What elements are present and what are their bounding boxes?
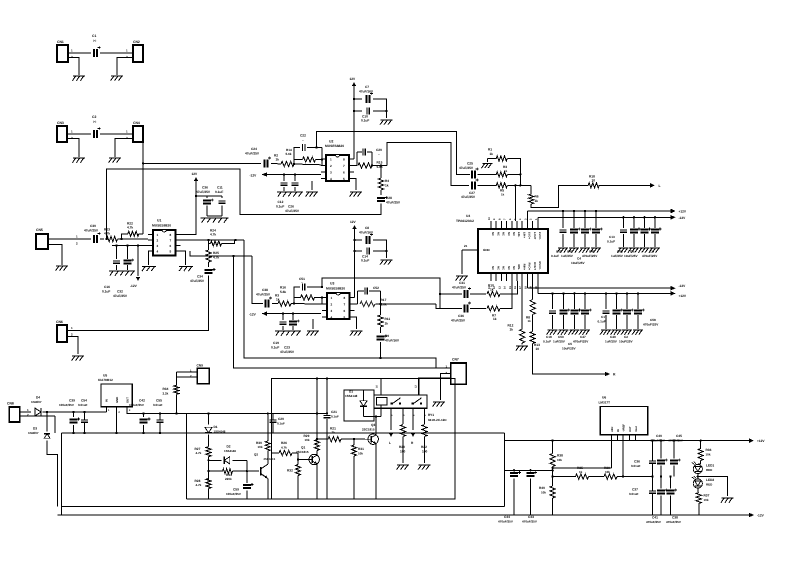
svg-text:CN2: CN2 <box>133 40 140 44</box>
wire <box>207 206 222 217</box>
wire <box>181 239 245 241</box>
power -12V out <box>671 215 687 220</box>
wire rail bottom 2 <box>57 514 750 516</box>
svg-text:CN5: CN5 <box>36 228 43 232</box>
wire <box>208 435 210 447</box>
svg-text:0.1uF: 0.1uF <box>331 415 339 419</box>
wire <box>196 196 222 198</box>
svg-text:C24: C24 <box>251 147 257 151</box>
svg-text:R34: R34 <box>163 387 169 391</box>
svg-text:1: 1 <box>157 233 159 237</box>
capacitor C20b <box>270 417 286 426</box>
resistor R6 <box>529 194 539 204</box>
wire <box>461 250 463 274</box>
wire CN4 to C24 <box>143 134 261 163</box>
svg-text:10k: 10k <box>704 498 709 502</box>
wire <box>373 99 387 118</box>
wire <box>314 296 323 304</box>
resistor R25 <box>206 250 219 262</box>
resistor R23 <box>104 228 117 242</box>
svg-text:1k: 1k <box>385 322 389 326</box>
wire <box>553 476 576 478</box>
label <box>598 320 606 324</box>
wire <box>673 439 675 476</box>
svg-text:-12V: -12V <box>249 313 257 317</box>
svg-text:470uF/25V: 470uF/25V <box>650 439 665 443</box>
svg-text:0.1uF: 0.1uF <box>598 320 606 324</box>
svg-text:U2: U2 <box>329 140 333 144</box>
label <box>546 335 552 339</box>
wire rail -12V b <box>527 281 670 288</box>
svg-text:470uF/25V: 470uF/25V <box>522 519 537 523</box>
capacitor C22 <box>300 134 306 152</box>
svg-text:10: 10 <box>536 347 540 351</box>
svg-text:47uF/25V: 47uF/25V <box>84 229 99 233</box>
wire <box>207 457 209 480</box>
wire <box>294 187 296 191</box>
wire <box>419 378 451 395</box>
capacitor C8 <box>359 226 374 244</box>
svg-text:1k: 1k <box>276 158 280 162</box>
svg-text:10uF/25V: 10uF/25V <box>619 340 634 344</box>
svg-text:4: 4 <box>330 177 332 181</box>
resistor R22 <box>127 222 139 237</box>
svg-text:2: 2 <box>330 164 332 168</box>
svg-text:0.1uF: 0.1uF <box>543 340 551 344</box>
svg-text:NC: NC <box>496 266 499 270</box>
label <box>610 335 616 339</box>
resistor R12 <box>508 324 525 344</box>
label <box>556 250 562 254</box>
diode D4 <box>31 396 42 416</box>
capacitor C14 <box>361 248 369 263</box>
pins U2 <box>321 157 354 181</box>
label <box>650 250 654 254</box>
wire rail bottom 1 <box>62 505 505 507</box>
power +12V <box>350 77 357 86</box>
resistor R24 <box>210 229 222 247</box>
wire <box>363 390 365 417</box>
ground <box>638 248 649 253</box>
wire <box>698 477 728 497</box>
svg-text:C37: C37 <box>632 488 638 492</box>
wire <box>440 293 462 295</box>
wire <box>61 433 63 515</box>
capacitor C18 <box>549 311 556 313</box>
wire <box>126 244 128 259</box>
svg-text:10k: 10k <box>258 445 263 449</box>
wire <box>272 303 278 305</box>
svg-text:47uF/25V: 47uF/25V <box>190 279 205 283</box>
wire <box>117 58 133 76</box>
wire <box>589 476 605 478</box>
svg-text:47uF/16V: 47uF/16V <box>385 339 400 343</box>
wire GND bus <box>62 432 505 434</box>
connector CN3 <box>57 121 67 142</box>
svg-text:47uF/16V: 47uF/16V <box>359 231 374 235</box>
pins U5 <box>105 397 131 433</box>
capacitor C43 <box>522 471 537 523</box>
svg-text:7: 7 <box>344 302 346 306</box>
capacitor C36 <box>196 186 214 205</box>
svg-text:0.1uF: 0.1uF <box>102 290 110 294</box>
svg-text:8: 8 <box>170 233 172 237</box>
ground <box>397 465 409 470</box>
ground <box>56 266 68 271</box>
ground <box>632 330 643 335</box>
svg-text:21: 21 <box>464 244 468 248</box>
wire <box>181 181 198 235</box>
diode D1b <box>205 425 226 434</box>
svg-text:D1: D1 <box>214 425 218 429</box>
capacitor C15 <box>560 230 567 232</box>
transistor Q3 <box>362 423 378 446</box>
wire <box>478 184 497 186</box>
svg-text:C58: C58 <box>650 318 656 322</box>
capacitor C36c <box>631 460 656 469</box>
svg-text:C22: C22 <box>300 134 306 138</box>
wire <box>402 437 404 464</box>
svg-text:C13: C13 <box>609 235 615 239</box>
wire <box>316 451 318 453</box>
wire <box>283 187 285 191</box>
wire <box>563 293 565 309</box>
svg-text:47uF/25V: 47uF/25V <box>113 294 128 298</box>
svg-text:C45: C45 <box>676 434 682 438</box>
wire <box>507 173 521 175</box>
label <box>543 340 551 344</box>
svg-text:12V: 12V <box>350 77 357 81</box>
svg-text:C51: C51 <box>299 277 305 281</box>
wire <box>521 281 523 329</box>
svg-text:Q3: Q3 <box>371 423 375 427</box>
ground <box>547 330 558 335</box>
svg-text:470uF/25V: 470uF/25V <box>498 519 513 523</box>
svg-text:47uF/25V: 47uF/25V <box>452 286 467 290</box>
wire <box>660 477 662 515</box>
ground <box>579 330 590 335</box>
svg-text:1k: 1k <box>276 298 280 302</box>
capacitor C44 <box>498 471 521 523</box>
svg-text:R11: R11 <box>385 317 391 321</box>
power -12V out b <box>671 284 687 290</box>
svg-text:CN1: CN1 <box>57 40 64 44</box>
wire <box>291 303 326 305</box>
wire <box>272 413 274 433</box>
wire <box>573 315 575 329</box>
svg-text:1k: 1k <box>504 169 508 173</box>
svg-text:C2: C2 <box>624 335 628 339</box>
svg-text:5: 5 <box>170 249 172 253</box>
wire <box>552 293 554 309</box>
svg-text:U5: U5 <box>103 374 107 378</box>
wire <box>353 439 355 499</box>
svg-text:C16: C16 <box>104 285 110 289</box>
led LED1 <box>692 462 715 474</box>
svg-text:47uF/25V: 47uF/25V <box>386 201 401 205</box>
wire <box>376 291 382 305</box>
capacitor C38 <box>256 288 272 308</box>
svg-text:4.7k: 4.7k <box>127 226 133 230</box>
capacitor C37 <box>629 488 656 497</box>
wire rail +12V b <box>538 281 671 293</box>
connector CN4 <box>133 121 143 142</box>
wire <box>294 148 300 165</box>
capacitor C50 <box>560 309 571 315</box>
capacitor C31 <box>452 281 471 298</box>
resistor R7 <box>487 306 500 321</box>
svg-text:C54: C54 <box>81 399 87 403</box>
wire <box>354 152 357 166</box>
svg-text:U6: U6 <box>602 396 606 400</box>
ground <box>600 330 611 335</box>
ground <box>179 267 193 272</box>
capacitor C59 <box>226 483 254 496</box>
wire <box>371 164 387 178</box>
label <box>551 254 559 258</box>
resistor R31 <box>351 445 364 456</box>
svg-text:-12V: -12V <box>250 173 258 177</box>
svg-text:R25: R25 <box>213 251 219 255</box>
diode D2 <box>224 445 236 464</box>
label <box>577 257 581 261</box>
relay pin numbers <box>376 385 428 416</box>
svg-text:6: 6 <box>170 244 172 248</box>
wire <box>616 293 618 309</box>
svg-text:1uF/25V: 1uF/25V <box>605 340 618 344</box>
svg-text:C40: C40 <box>656 434 662 438</box>
svg-text:1k: 1k <box>579 470 583 474</box>
svg-text:1SS4148: 1SS4148 <box>214 430 226 434</box>
svg-text:R16: R16 <box>280 286 286 290</box>
wire <box>159 414 161 433</box>
svg-text:3: 3 <box>157 244 159 248</box>
capacitor C42 <box>129 399 150 424</box>
led LED2 <box>692 476 715 488</box>
svg-text:470uF/25V: 470uF/25V <box>643 323 659 327</box>
capacitor C48 <box>630 228 641 234</box>
wire <box>380 379 382 395</box>
svg-text:1: 1 <box>330 157 332 161</box>
wire <box>373 240 387 258</box>
svg-text:GND: GND <box>115 397 119 403</box>
block border left <box>186 414 271 500</box>
wire <box>371 152 373 166</box>
svg-text:1SS4148: 1SS4148 <box>224 449 236 453</box>
label <box>567 250 573 254</box>
svg-text:C48: C48 <box>617 250 623 254</box>
svg-text:RIN-: RIN- <box>517 264 520 270</box>
capacitor C41 <box>646 489 668 524</box>
svg-text:KIA78M12: KIA78M12 <box>98 378 113 382</box>
ground <box>72 356 84 361</box>
svg-text:C4: C4 <box>577 257 581 261</box>
wire <box>208 262 210 267</box>
capacitor C40b <box>650 434 668 465</box>
wire <box>513 470 515 515</box>
ground <box>109 158 121 163</box>
resistor R4 <box>378 178 389 190</box>
wire <box>20 415 55 417</box>
svg-text:L: L <box>659 184 661 188</box>
svg-text:C2: C2 <box>92 115 96 119</box>
svg-text:+12V: +12V <box>679 294 687 298</box>
svg-text:+12V: +12V <box>757 439 765 443</box>
wire <box>507 159 520 186</box>
ground <box>72 76 84 81</box>
connector CN8 <box>7 402 20 423</box>
svg-text:47uF/25V: 47uF/25V <box>245 152 260 156</box>
node <box>293 163 295 165</box>
node <box>605 292 639 294</box>
wire <box>326 377 328 499</box>
wire <box>533 344 605 375</box>
label <box>562 347 577 351</box>
wire <box>626 315 628 329</box>
label <box>582 254 598 258</box>
wire <box>436 304 460 309</box>
svg-text:RVO+: RVO+ <box>528 263 531 271</box>
svg-text:C36: C36 <box>202 186 208 190</box>
wire <box>700 439 702 448</box>
svg-text:5: 5 <box>344 315 346 319</box>
pins U3 <box>322 296 355 320</box>
label <box>650 318 656 322</box>
wire <box>697 474 699 479</box>
wire <box>233 459 247 461</box>
wire <box>500 281 517 294</box>
wire <box>552 498 554 515</box>
label <box>611 254 624 258</box>
resistor R27 <box>195 447 212 457</box>
svg-text:-12V: -12V <box>757 514 765 518</box>
resistor R21 <box>328 427 341 442</box>
wire <box>418 378 420 395</box>
output L triangle <box>389 433 393 445</box>
svg-text:470uF/25V: 470uF/25V <box>642 254 658 258</box>
svg-text:CN8: CN8 <box>7 402 14 406</box>
wire <box>68 58 79 76</box>
svg-text:C17: C17 <box>601 315 607 319</box>
svg-text:2SC1815: 2SC1815 <box>362 428 375 432</box>
svg-text:LIN+: LIN+ <box>522 232 525 238</box>
power -12V <box>250 172 268 177</box>
ground <box>590 248 601 253</box>
svg-text:C59: C59 <box>233 488 239 492</box>
wire <box>357 151 372 153</box>
ground <box>72 158 84 163</box>
wire <box>424 437 426 464</box>
wire <box>381 303 437 305</box>
svg-text:1uF/25V: 1uF/25V <box>553 340 566 344</box>
power +12V out b <box>671 291 687 298</box>
svg-text:0.1uF: 0.1uF <box>361 119 369 123</box>
svg-text:C7: C7 <box>365 85 369 89</box>
svg-text:5.6k: 5.6k <box>280 290 286 294</box>
svg-text:10k: 10k <box>605 470 610 474</box>
capacitor C13 <box>620 230 627 232</box>
wire <box>115 244 117 259</box>
svg-text:R40: R40 <box>539 486 545 490</box>
wire <box>573 234 575 247</box>
wire <box>643 234 645 247</box>
wire <box>643 217 645 228</box>
block border <box>272 379 456 499</box>
wire <box>412 408 414 430</box>
connector CN9 <box>197 363 210 384</box>
wire <box>622 234 624 247</box>
wire <box>637 315 639 329</box>
wire <box>379 342 381 359</box>
svg-text:C50: C50 <box>558 335 564 339</box>
wire <box>181 251 186 265</box>
wire <box>190 251 252 256</box>
wire <box>552 315 554 329</box>
wire <box>294 163 321 166</box>
svg-text:Q2: Q2 <box>254 452 258 456</box>
label <box>561 254 574 258</box>
svg-text:(+): (+) <box>93 121 96 124</box>
ground <box>380 260 392 265</box>
wire feedback <box>122 234 128 239</box>
ground <box>618 248 629 253</box>
wire <box>294 298 301 304</box>
svg-text:12V: 12V <box>192 172 199 176</box>
resistor R8 <box>526 300 535 324</box>
resistor R26 <box>279 441 292 456</box>
svg-text:1k: 1k <box>535 199 539 203</box>
svg-text:2SC1815: 2SC1815 <box>264 457 276 461</box>
resistor R40 <box>539 486 555 498</box>
power +12V <box>192 172 199 181</box>
svg-text:R17: R17 <box>381 298 387 302</box>
wire <box>669 475 671 515</box>
wire <box>208 414 210 425</box>
svg-text:R32: R32 <box>287 469 293 473</box>
label <box>619 340 634 344</box>
wire <box>316 466 318 499</box>
wire <box>532 315 534 332</box>
label <box>553 340 566 344</box>
svg-text:C3: C3 <box>630 250 634 254</box>
svg-text:0.01uF: 0.01uF <box>153 403 163 407</box>
svg-text:R4: R4 <box>385 179 389 183</box>
pins U1 <box>148 233 181 254</box>
svg-text:47uF/25V: 47uF/25V <box>285 209 300 213</box>
wire <box>637 293 639 309</box>
svg-text:-12V: -12V <box>679 284 687 288</box>
capacitor C55 <box>153 399 164 423</box>
svg-text:U4: U4 <box>466 214 470 218</box>
ground <box>433 402 445 407</box>
wire <box>271 162 281 165</box>
svg-text:--: -- <box>301 282 303 285</box>
svg-text:C36: C36 <box>634 460 640 464</box>
svg-text:10: 10 <box>592 179 596 183</box>
svg-text:LVO+: LVO+ <box>528 232 531 239</box>
svg-text:C49: C49 <box>610 335 616 339</box>
svg-text:RVCC-: RVCC- <box>538 262 541 271</box>
capacitor C27 <box>461 178 479 199</box>
svg-text:7: 7 <box>343 164 345 168</box>
resistor R3 <box>275 294 291 307</box>
wire <box>584 293 586 309</box>
pins U4 bottom <box>488 262 541 289</box>
svg-text:NC: NC <box>502 266 505 270</box>
wire <box>353 229 355 298</box>
wire <box>355 239 363 241</box>
resistor R22b <box>421 425 428 454</box>
